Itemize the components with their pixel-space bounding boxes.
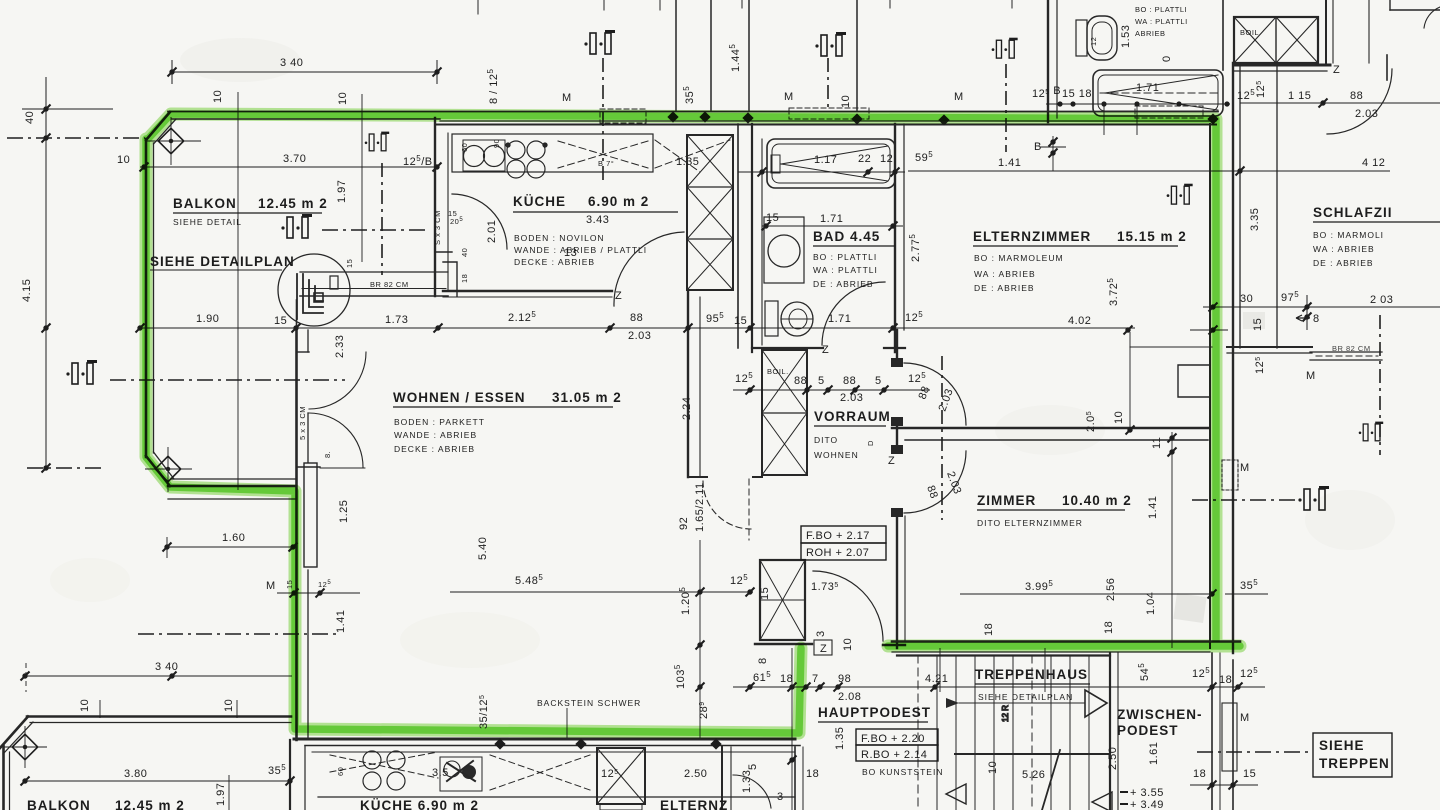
- svg-text:WANDE : ABRIEB: WANDE : ABRIEB: [394, 430, 477, 440]
- svg-text:8 / 125: 8 / 125: [486, 68, 500, 104]
- niche in elternzimmer east wall: [1178, 365, 1210, 397]
- svg-text:2.33: 2.33: [334, 335, 346, 358]
- svg-text:18: 18: [1193, 768, 1206, 780]
- door arc vorraum->elternzimmer: [904, 363, 966, 425]
- svg-text:M: M: [784, 91, 794, 103]
- svg-text:+ 3.55: + 3.55: [1130, 787, 1164, 799]
- svg-text:15.15 m 2: 15.15 m 2: [1117, 229, 1187, 244]
- svg-text:88: 88: [794, 375, 807, 387]
- svg-text:SCHLAFZII: SCHLAFZII: [1313, 205, 1393, 220]
- svg-text:18: 18: [1103, 621, 1115, 634]
- svg-text:1.35: 1.35: [834, 727, 846, 750]
- svg-text:2.24: 2.24: [681, 397, 693, 420]
- kitchen south wall: [443, 290, 612, 292]
- svg-text:BODEN : NOVILON: BODEN : NOVILON: [514, 233, 605, 243]
- svg-text:3.70: 3.70: [283, 153, 306, 165]
- wall: top balcony parapet inner line: [172, 118, 440, 120]
- wall: bottom-left corner diagonal outer: [146, 456, 170, 486]
- centerlines: [110, 379, 345, 381]
- svg-text:5: 5: [818, 375, 825, 387]
- svg-text:12: 12: [880, 153, 893, 165]
- svg-text:BR 82 CM: BR 82 CM: [370, 280, 409, 289]
- svg-text:Z: Z: [820, 643, 827, 655]
- svg-text:Z: Z: [888, 455, 895, 467]
- svg-text:5 x 3 CM: 5 x 3 CM: [298, 406, 307, 440]
- svg-text:2.56: 2.56: [1105, 578, 1117, 601]
- svg-text:DE : ABRIEB: DE : ABRIEB: [1313, 258, 1374, 268]
- lower flat west wall: [289, 740, 291, 810]
- svg-text:M: M: [562, 92, 572, 104]
- small wall dim near M y593: [277, 592, 360, 594]
- svg-text:BALKON: BALKON: [173, 196, 237, 211]
- svg-text:12: 12: [1089, 37, 1098, 46]
- stairwell east wall: [1109, 653, 1111, 810]
- svg-text:10: 10: [840, 95, 852, 108]
- svg-text:ELTERNZIMMER: ELTERNZIMMER: [973, 229, 1091, 244]
- svg-text:BR 82 CM: BR 82 CM: [1332, 344, 1371, 353]
- boxed levels vorraum: [801, 526, 1392, 777]
- dim y390 vorraum: [733, 389, 930, 391]
- svg-text:3 40: 3 40: [155, 661, 178, 673]
- svg-text:10.40 m 2: 10.40 m 2: [1062, 493, 1132, 508]
- B tick near elternzimmer top: [1052, 136, 1054, 171]
- wall: left balcony parapet outer: [145, 139, 148, 457]
- BAD door arc: [822, 282, 885, 345]
- svg-text:S x 3 CM: S x 3 CM: [433, 210, 442, 245]
- right wall below zimmer: [1211, 653, 1213, 810]
- svg-text:BO : MARMOLEUM: BO : MARMOLEUM: [974, 253, 1064, 263]
- svg-text:4 12: 4 12: [1362, 157, 1385, 169]
- svg-text:3.5: 3.5: [432, 767, 449, 779]
- svg-text:88: 88: [630, 312, 643, 324]
- dim line 3.70 y168: [140, 166, 437, 168]
- wall: left balcony parapet inner: [153, 143, 155, 453]
- window band balcony (BR 82 CM): [300, 271, 448, 273]
- svg-text:PODEST: PODEST: [1117, 723, 1179, 738]
- svg-text:15: 15: [759, 587, 771, 600]
- svg-text:WA : PLATTLI: WA : PLATTLI: [813, 265, 878, 275]
- svg-text:1.53: 1.53: [1120, 25, 1132, 48]
- svg-text:M: M: [266, 580, 276, 592]
- svg-text:WOHNEN: WOHNEN: [814, 450, 859, 460]
- svg-text:15: 15: [345, 259, 354, 268]
- neighbour bath east walls: [1222, 0, 1224, 70]
- svg-text:B: B: [1034, 141, 1042, 153]
- wall: top apartment inner face: [435, 124, 1216, 126]
- svg-text:1.97: 1.97: [336, 180, 348, 203]
- svg-text:D: D: [866, 440, 875, 446]
- svg-text:BO : PLATTLI: BO : PLATTLI: [1135, 5, 1187, 14]
- svg-text:1.04: 1.04: [1145, 592, 1157, 615]
- svg-text:ELTERNZ: ELTERNZ: [660, 798, 728, 810]
- svg-text:15 18: 15 18: [1062, 88, 1092, 100]
- svg-text:4.15: 4.15: [21, 279, 33, 302]
- svg-text:BODEN : PARKETT: BODEN : PARKETT: [394, 417, 485, 427]
- svg-text:DE : ABRIEB: DE : ABRIEB: [974, 283, 1035, 293]
- lower balcony parapet: [27, 715, 291, 718]
- wall: bottom-left corner diagonal inner: [154, 452, 175, 479]
- dim y592 wohnen 5.48: [450, 591, 753, 593]
- svg-text:BOIL.: BOIL.: [767, 367, 789, 376]
- svg-text:13: 13: [564, 247, 577, 259]
- svg-text:5: 5: [747, 763, 759, 770]
- radiator zimmer: [1222, 460, 1238, 490]
- balcony sliding door leaf: [304, 463, 317, 567]
- svg-text:35/125: 35/125: [478, 695, 490, 729]
- svg-text:2.50: 2.50: [684, 768, 707, 780]
- svg-text:15: 15: [1243, 768, 1256, 780]
- svg-text:12.45 m 2: 12.45 m 2: [115, 798, 185, 810]
- dim right 4.12 y171: [908, 170, 1390, 172]
- svg-text:M: M: [1240, 462, 1250, 474]
- svg-text:12.45 m 2: 12.45 m 2: [258, 196, 328, 211]
- svg-text:1.61: 1.61: [1148, 742, 1160, 765]
- entry wall + door: [755, 643, 812, 645]
- sink unit: [463, 140, 505, 171]
- svg-text:+ 3.49: + 3.49: [1130, 799, 1164, 810]
- wall: top-left corner diagonal inner: [154, 119, 177, 144]
- dim y687 hauptpodest: [733, 686, 1210, 688]
- svg-text:VORRAUM: VORRAUM: [814, 409, 891, 424]
- svg-text:2.50: 2.50: [1107, 747, 1119, 770]
- svg-text:1.35: 1.35: [676, 156, 699, 168]
- wall: top-left corner diagonal outer: [146, 112, 170, 140]
- svg-text:18: 18: [780, 673, 793, 685]
- svg-text:88: 88: [1350, 90, 1363, 102]
- svg-text:2.03: 2.03: [840, 392, 863, 404]
- svg-text:3: 3: [777, 791, 784, 803]
- dim y547 + 1.60: [167, 546, 295, 548]
- svg-text:SIEHE: SIEHE: [1319, 738, 1365, 753]
- svg-text:BO : PLATTLI: BO : PLATTLI: [813, 252, 877, 262]
- neighbour bath dim y103: [1240, 102, 1440, 104]
- lower walls right: [721, 747, 723, 810]
- dim line inside bad y226: [762, 225, 903, 227]
- svg-text:1.73: 1.73: [385, 314, 408, 326]
- svg-text:M: M: [954, 91, 964, 103]
- lower hatched shaft: [597, 748, 645, 804]
- svg-text:90: 90: [492, 139, 501, 148]
- svg-text:15: 15: [1252, 318, 1264, 331]
- svg-text:1.41: 1.41: [335, 610, 347, 633]
- door jambs: [891, 358, 903, 367]
- svg-text:4.21: 4.21: [925, 673, 948, 685]
- corridor door arc (kitchen SE): [614, 232, 684, 306]
- svg-text:18: 18: [983, 623, 995, 636]
- svg-text:Z: Z: [1333, 64, 1340, 76]
- svg-text:TREPPEN: TREPPEN: [1319, 756, 1390, 771]
- svg-text:22: 22: [858, 153, 871, 165]
- svg-text:15: 15: [766, 212, 779, 224]
- svg-text:88: 88: [843, 375, 856, 387]
- svg-text:15: 15: [274, 315, 287, 327]
- svg-text:1.97: 1.97: [215, 783, 227, 806]
- kitchen west niche: [443, 262, 457, 296]
- svg-text:WOHNEN / ESSEN: WOHNEN / ESSEN: [393, 390, 526, 405]
- BAD south wall: [752, 347, 823, 349]
- svg-text:Z: Z: [822, 344, 829, 356]
- svg-text:3 40: 3 40: [280, 57, 303, 69]
- svg-text:DITO ELTERNZIMMER: DITO ELTERNZIMMER: [977, 518, 1083, 528]
- svg-text:10: 10: [842, 638, 854, 651]
- BAD east wall: [894, 124, 896, 352]
- svg-text:10: 10: [987, 761, 999, 774]
- washbasin: [764, 217, 804, 283]
- svg-text:F.BO + 2.17: F.BO + 2.17: [806, 530, 870, 542]
- dim y594 zimmer: [960, 593, 1212, 595]
- svg-text:10: 10: [223, 699, 235, 712]
- svg-text:60: 60: [460, 143, 469, 152]
- svg-text:B 7°: B 7°: [598, 159, 614, 168]
- svg-text:1.25: 1.25: [338, 500, 350, 523]
- svg-text:ZWISCHEN-: ZWISCHEN-: [1117, 707, 1203, 722]
- top-right corner fragment: [1389, 0, 1391, 10]
- node diamonds on top wall: [494, 111, 1218, 749]
- svg-text:98: 98: [838, 673, 851, 685]
- svg-text:WA : ABRIEB: WA : ABRIEB: [1313, 244, 1375, 254]
- svg-text:11: 11: [1151, 437, 1163, 449]
- svg-text:40: 40: [24, 111, 36, 124]
- neighbour hatched shaft: [1234, 17, 1318, 63]
- svg-text:5.26: 5.26: [1022, 769, 1045, 781]
- dim line 3.40 top: [172, 71, 437, 73]
- svg-text:10: 10: [1113, 411, 1125, 424]
- dim y307 right: [1203, 306, 1440, 308]
- svg-text:DE : ABRIEB: DE : ABRIEB: [813, 279, 874, 289]
- green highlight outline: core: [146, 114, 1240, 733]
- svg-text:DECKE : ABRIEB: DECKE : ABRIEB: [394, 444, 475, 454]
- wall: balcony bottom parapet outer: [168, 485, 296, 488]
- svg-text:1.41: 1.41: [1147, 496, 1159, 519]
- neighbour toilet: [1076, 20, 1087, 56]
- svg-text:BOIL: BOIL: [1240, 28, 1259, 37]
- svg-text:18: 18: [806, 768, 819, 780]
- centerline top-left corner: [7, 137, 145, 139]
- french door arcs to balcony: [309, 352, 366, 409]
- svg-text:2.08: 2.08: [838, 691, 861, 703]
- svg-text:SIEHE DETAILPLAN: SIEHE DETAILPLAN: [978, 692, 1073, 702]
- dim y781 lower balcony: [25, 780, 292, 782]
- zimmer wall ticks: [1171, 432, 1173, 648]
- corner diamond top-left: [158, 128, 183, 153]
- svg-text:1.71: 1.71: [1136, 82, 1159, 94]
- wall: balcony bottom parapet inner: [172, 478, 296, 480]
- svg-text:8: 8: [757, 657, 769, 664]
- BAD west wall: [737, 124, 739, 348]
- svg-text:15: 15: [734, 315, 747, 327]
- wall: kitchen west wall: [434, 118, 436, 296]
- detail circle around balcony door: [278, 254, 350, 326]
- lower kitchen counter: [312, 751, 795, 753]
- svg-text:WANDE : ABRIEB / PLATTLI: WANDE : ABRIEB / PLATTLI: [514, 245, 647, 255]
- svg-text:5.40: 5.40: [477, 537, 489, 560]
- dashed door wohnen->vorraum: [703, 481, 751, 529]
- upper cabinet dashes: [558, 141, 648, 168]
- svg-text:31.05 m 2: 31.05 m 2: [552, 390, 622, 405]
- svg-text:1.33: 1.33: [741, 770, 753, 793]
- svg-text:10: 10: [117, 154, 130, 166]
- svg-text:1 15: 1 15: [1288, 90, 1311, 102]
- svg-text:BAD 4.45: BAD 4.45: [813, 229, 880, 244]
- svg-text:1.90: 1.90: [196, 313, 219, 325]
- svg-text:18: 18: [1219, 674, 1232, 686]
- svg-text:18: 18: [460, 274, 469, 283]
- svg-text:3.80: 3.80: [124, 768, 147, 780]
- right bottom small dims: [1185, 686, 1265, 688]
- svg-text:8.: 8.: [323, 451, 332, 458]
- svg-text:BO KUNSTSTEIN: BO KUNSTSTEIN: [862, 767, 943, 777]
- svg-text:TREPPENHAUS: TREPPENHAUS: [975, 667, 1088, 682]
- bathtub: [767, 139, 895, 188]
- svg-text:M: M: [1306, 370, 1316, 382]
- svg-text:WA : ABRIEB: WA : ABRIEB: [974, 269, 1036, 279]
- svg-text:2.03: 2.03: [628, 330, 651, 342]
- svg-text:SIEHE DETAIL: SIEHE DETAIL: [173, 217, 242, 227]
- svg-text:R.BO + 2.14: R.BO + 2.14: [861, 749, 927, 761]
- dim segment through bad y172: [738, 171, 905, 173]
- svg-text:2.03: 2.03: [1355, 108, 1378, 120]
- svg-text:KÜCHE: KÜCHE: [513, 194, 566, 209]
- svg-text:F.BO + 2.20: F.BO + 2.20: [861, 733, 925, 745]
- svg-text:3.35: 3.35: [1249, 208, 1261, 231]
- svg-text:2.01: 2.01: [486, 220, 498, 243]
- svg-text:ZIMMER: ZIMMER: [977, 493, 1036, 508]
- svg-text:SIEHE DETAILPLAN: SIEHE DETAILPLAN: [150, 254, 295, 269]
- svg-text:0: 0: [1161, 55, 1173, 62]
- door arc vorraum->zimmer: [904, 451, 966, 513]
- svg-text:1.71: 1.71: [828, 313, 851, 325]
- svg-text:40: 40: [460, 248, 469, 257]
- wall: living room south wall: [294, 738, 795, 741]
- svg-text:92: 92: [678, 517, 690, 530]
- green highlight outline: outer halo: [146, 114, 1240, 733]
- wall: living room west wall: [295, 328, 298, 740]
- kitchen counter outline: [452, 134, 653, 172]
- leader line backstein: [566, 708, 568, 738]
- svg-text:HAUPTPODEST: HAUPTPODEST: [818, 705, 931, 720]
- svg-text:3.43: 3.43: [586, 214, 609, 226]
- left vertical dim 40/4.15: [45, 77, 47, 470]
- svg-text:7: 7: [812, 673, 819, 685]
- svg-text:1.71: 1.71: [820, 213, 843, 225]
- svg-text:6.90 m 2: 6.90 m 2: [588, 194, 649, 209]
- neighbour bathtub: [1093, 70, 1223, 116]
- kitchen door arc SW: [452, 194, 507, 249]
- svg-text:M: M: [1240, 712, 1250, 724]
- stair dashed guide: [939, 648, 941, 692]
- svg-text:1.60: 1.60: [222, 532, 245, 544]
- svg-text:12 R: 12 R: [1001, 705, 1010, 722]
- wall: top exterior outer line: [168, 111, 1218, 113]
- lower balcony diamond: [12, 734, 37, 759]
- svg-text:KÜCHE 6.90 m 2: KÜCHE 6.90 m 2: [360, 798, 479, 810]
- svg-text:BALKON: BALKON: [27, 798, 91, 810]
- lower flat kitchen north wall: [305, 745, 800, 747]
- wohnen/vorraum wall: [687, 290, 689, 477]
- svg-text:1.41: 1.41: [998, 157, 1021, 169]
- main dim y328: [140, 327, 1135, 329]
- svg-text:3: 3: [815, 630, 827, 637]
- svg-text:1.17: 1.17: [814, 154, 837, 166]
- svg-text:60: 60: [336, 767, 345, 776]
- schlafzimmer door arc: [1327, 69, 1392, 134]
- zimmer south wall: [892, 640, 1240, 643]
- dim row y104 through neighbour tub: [1046, 103, 1230, 105]
- section symbols: [281, 214, 312, 238]
- svg-text:BACKSTEIN SCHWER: BACKSTEIN SCHWER: [537, 698, 641, 708]
- stair arrow: [1042, 750, 1060, 810]
- svg-text:WA : PLATTLI: WA : PLATTLI: [1135, 17, 1188, 26]
- svg-text:10: 10: [337, 92, 349, 105]
- toilet: [765, 301, 778, 336]
- svg-text:DITO: DITO: [814, 435, 838, 445]
- svg-text:30: 30: [1240, 293, 1253, 305]
- svg-text:10: 10: [212, 90, 224, 103]
- extension line x238: [237, 92, 239, 490]
- wall stub right at y348: [1227, 346, 1312, 348]
- svg-text:8: 8: [1313, 313, 1320, 325]
- svg-text:Z: Z: [615, 290, 622, 302]
- svg-text:1.65/2.11: 1.65/2.11: [694, 482, 706, 532]
- thick wall right of shaft: [1234, 64, 1330, 67]
- corner diamond bottom-left: [155, 456, 180, 481]
- svg-text:ROH + 2.07: ROH + 2.07: [806, 547, 869, 559]
- svg-text:10: 10: [79, 699, 91, 712]
- svg-text:2 03: 2 03: [1370, 294, 1393, 306]
- svg-text:5: 5: [875, 375, 882, 387]
- svg-text:ABRIEB: ABRIEB: [1135, 29, 1166, 38]
- svg-text:BO : MARMOLI: BO : MARMOLI: [1313, 230, 1384, 240]
- wall: west wall top stub at window band: [296, 300, 298, 328]
- stove burners: [507, 141, 525, 159]
- svg-text:15: 15: [285, 580, 294, 589]
- svg-text:4.02: 4.02: [1068, 315, 1091, 327]
- svg-text:DECKE : ABRIEB: DECKE : ABRIEB: [514, 257, 595, 267]
- dim y676 lower balcony: [25, 675, 292, 677]
